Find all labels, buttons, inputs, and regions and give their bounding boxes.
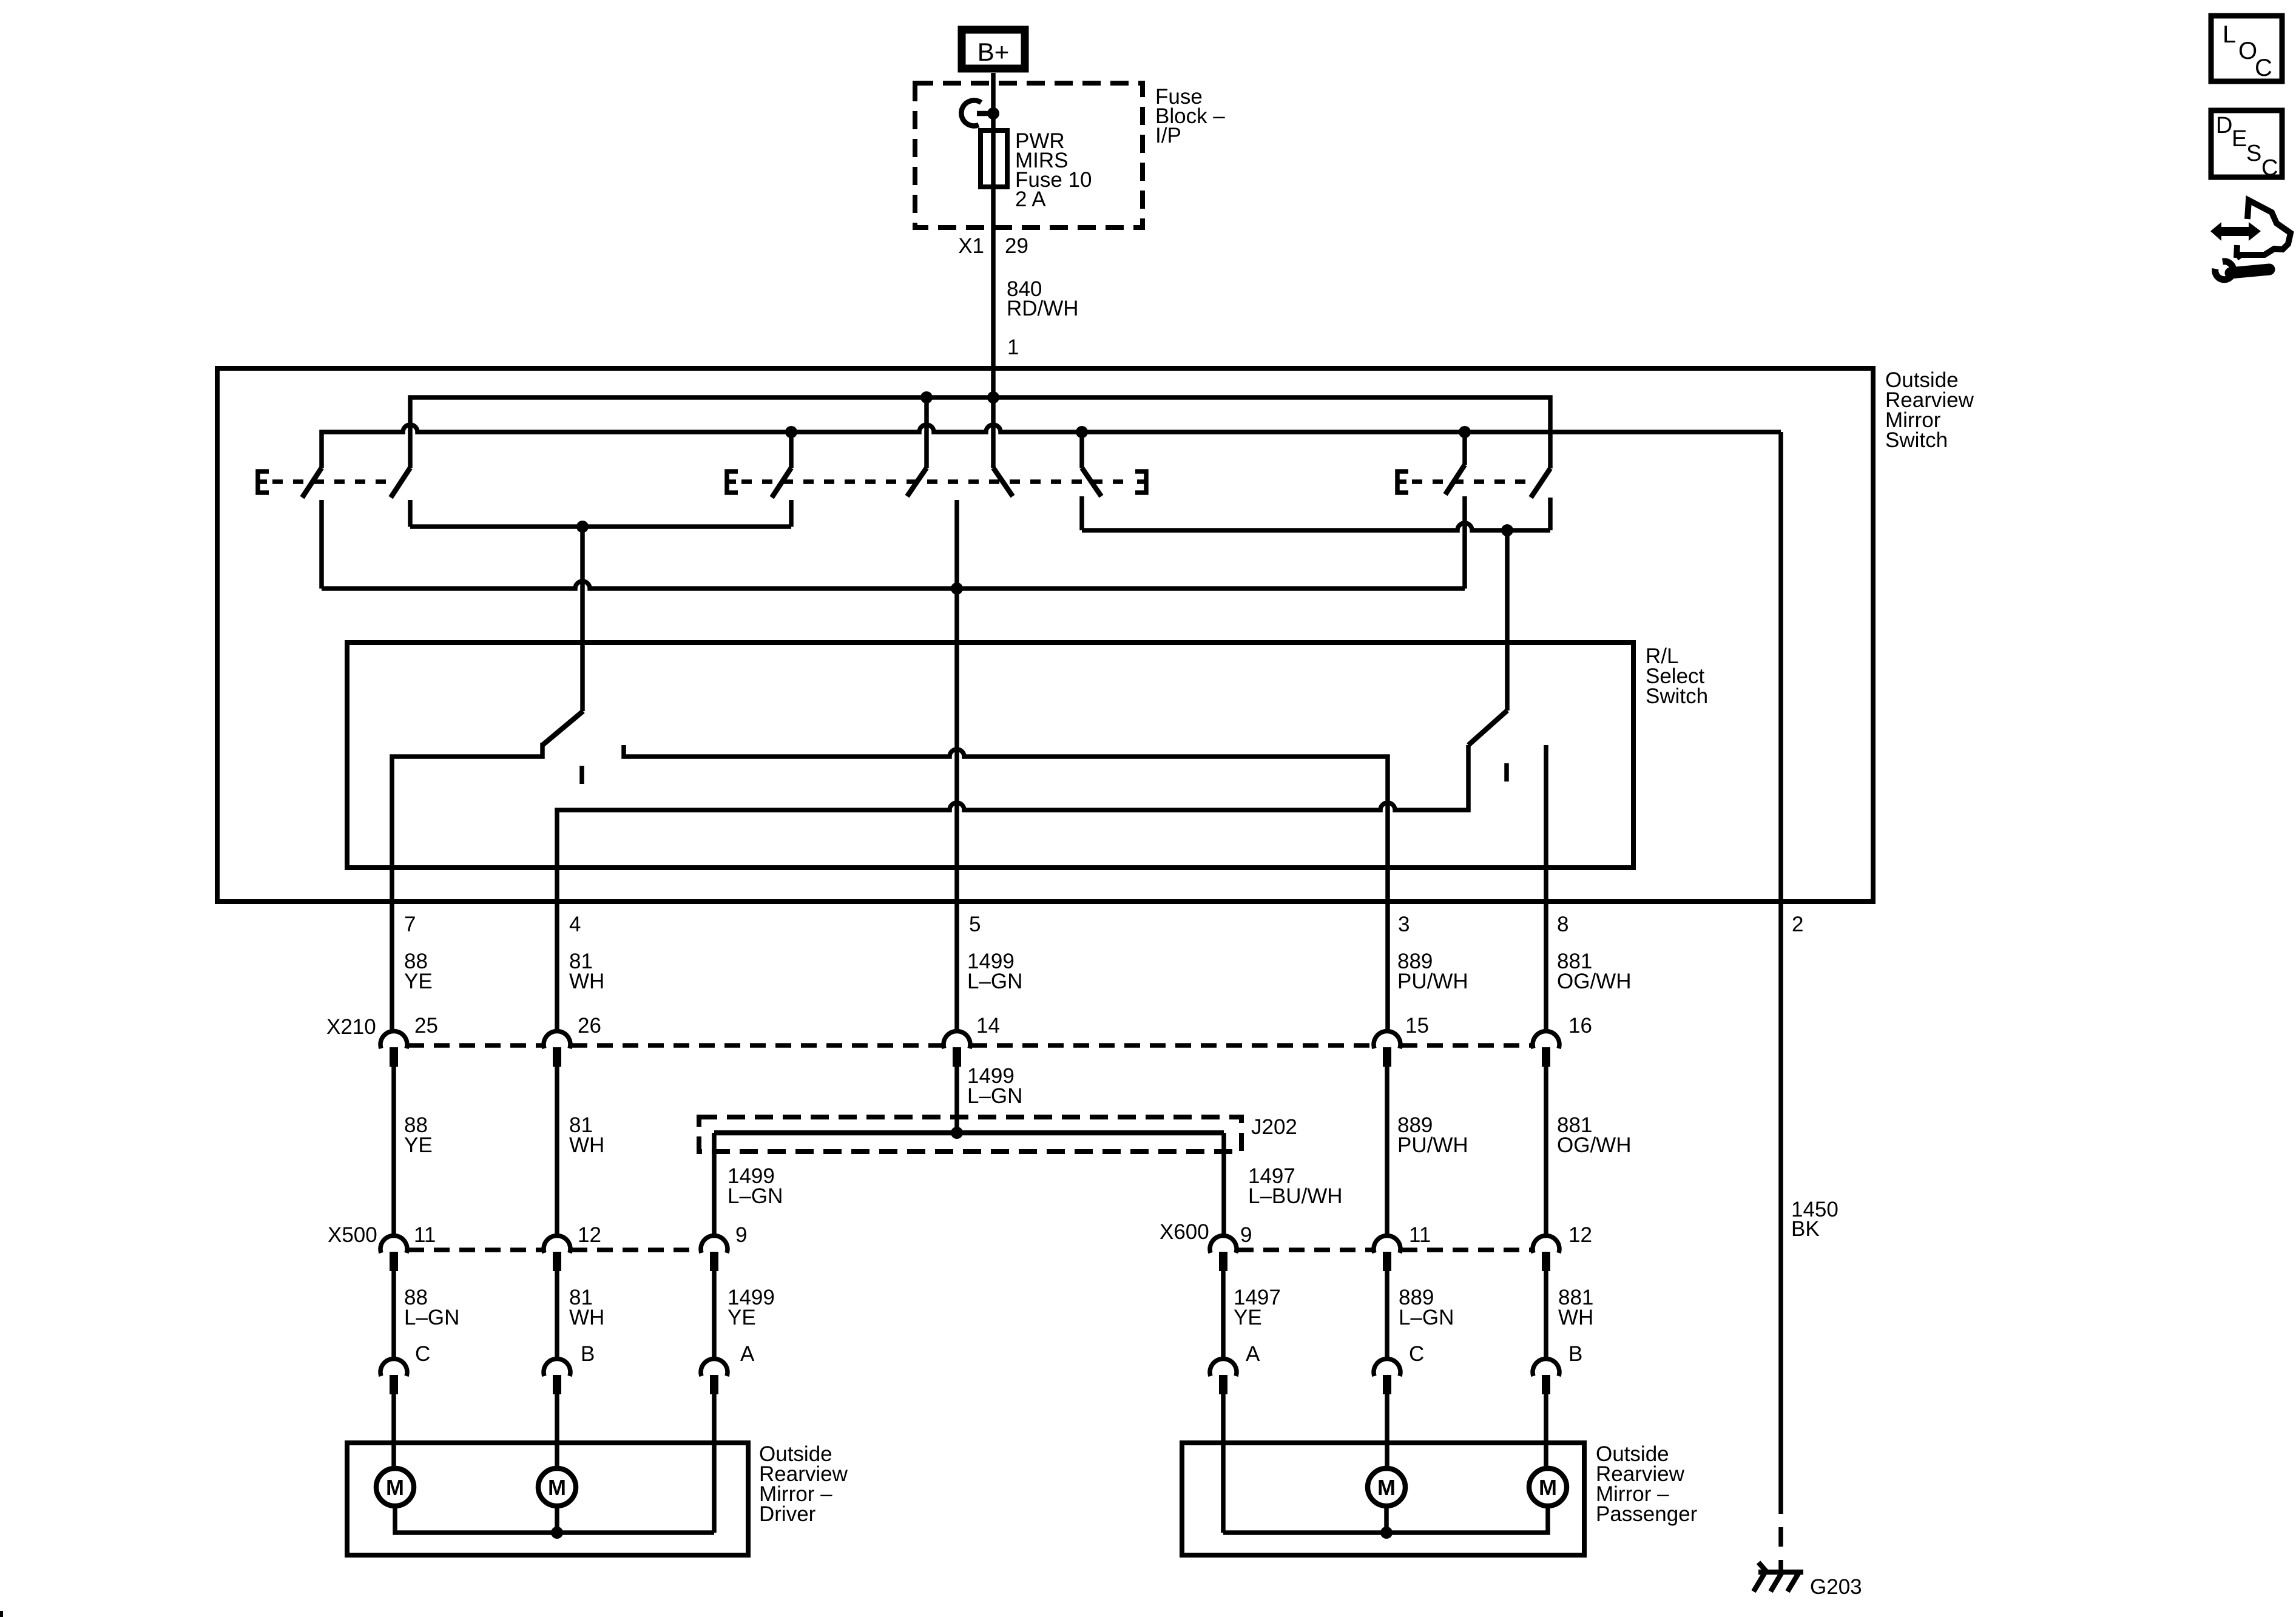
svg-text:OG/WH: OG/WH xyxy=(1557,970,1631,993)
X600 dashed line xyxy=(1238,1247,1531,1252)
X210 terminal 14 xyxy=(944,1031,970,1067)
outside rearview mirror passenger box xyxy=(1182,1443,1584,1555)
svg-text:X210: X210 xyxy=(326,1015,376,1039)
RL left pivot tick xyxy=(579,766,584,784)
svg-text:X600: X600 xyxy=(1160,1220,1209,1244)
wire pin 2 dashed section xyxy=(1778,1494,1783,1572)
wire X500-9 to mirror A xyxy=(712,1271,717,1360)
mirror terminal C passenger xyxy=(1374,1359,1400,1394)
svg-text:25: 25 xyxy=(414,1014,438,1038)
svg-text:12: 12 xyxy=(578,1223,601,1247)
X500 terminal 12 xyxy=(544,1235,570,1271)
splice junction dot xyxy=(951,1127,963,1139)
wire X600-12 to mirror B xyxy=(1544,1271,1548,1360)
wire 1499 L-GN label 2 xyxy=(967,1064,1022,1108)
RL left throw to pin 7 xyxy=(392,743,542,1032)
svg-text:L–GN: L–GN xyxy=(967,1084,1022,1108)
fuse block I/P dashed box xyxy=(915,83,1143,228)
svg-text:8: 8 xyxy=(1557,913,1568,936)
svg-text:B+: B+ xyxy=(977,38,1010,66)
switch blade S5 xyxy=(993,468,1013,496)
wire B into driver motor xyxy=(555,1394,559,1468)
junction dot bus2 S8 xyxy=(1459,426,1471,438)
svg-text:A: A xyxy=(1246,1342,1260,1366)
X500 terminal 11 xyxy=(380,1235,407,1271)
junction dot right pair xyxy=(1501,524,1513,536)
svg-text:9: 9 xyxy=(735,1223,747,1247)
X210 terminal 15 xyxy=(1374,1031,1400,1067)
wire X600-9 to mirror A xyxy=(1221,1271,1226,1360)
svg-text:L–GN: L–GN xyxy=(1399,1306,1454,1329)
svg-text:YE: YE xyxy=(404,1133,433,1157)
contact stub S6 xyxy=(1079,496,1084,530)
motor M passenger horizontal xyxy=(1529,1468,1567,1506)
gang dashes row B xyxy=(741,479,1131,484)
svg-text:G203: G203 xyxy=(1810,1575,1862,1599)
svg-text:L–GN: L–GN xyxy=(404,1306,459,1329)
switch blade S3 xyxy=(772,468,791,498)
wire 1497 L-BU/WH branch label xyxy=(1248,1164,1343,1208)
junction dot left pair xyxy=(576,521,589,533)
mirror terminal A driver xyxy=(701,1359,728,1394)
svg-text:4: 4 xyxy=(569,913,581,936)
svg-text:C: C xyxy=(415,1342,430,1366)
center contact wire to pin 5 xyxy=(954,500,959,1032)
switch blade S7 xyxy=(1531,468,1550,498)
wire left pair to RL switch xyxy=(580,527,585,711)
wire right pair to RL switch xyxy=(1505,530,1510,711)
svg-text:5: 5 xyxy=(969,913,981,936)
splice bar xyxy=(714,1130,1224,1136)
switch blade S2 xyxy=(391,468,410,498)
wire 881 OG/WH label xyxy=(1557,950,1631,993)
svg-text:X500: X500 xyxy=(328,1223,377,1247)
svg-text:Switch: Switch xyxy=(1646,684,1708,708)
wire 88 YE label 2 xyxy=(404,1113,433,1157)
svg-text:PU/WH: PU/WH xyxy=(1397,1133,1468,1157)
junction dot center contact xyxy=(951,582,963,595)
switch blade S1 xyxy=(302,468,322,498)
wire pin25 to X500 xyxy=(391,1067,396,1237)
wire bus1 to S4 xyxy=(924,397,929,468)
contact stub S7 xyxy=(1548,498,1553,530)
LOC icon box xyxy=(2211,16,2282,81)
wire splice right branch to X600 pin 9 xyxy=(1221,1133,1226,1237)
wire bus2 to S8 xyxy=(1462,432,1467,465)
splice J202 dashed box xyxy=(699,1117,1241,1152)
wire 881 OG/WH label 2 xyxy=(1557,1113,1631,1157)
svg-text:YE: YE xyxy=(728,1306,756,1329)
wire splice left branch to X500 pin 9 xyxy=(712,1133,717,1237)
svg-text:B: B xyxy=(581,1342,595,1366)
svg-text:B: B xyxy=(1568,1342,1582,1366)
svg-text:E: E xyxy=(2232,126,2247,152)
svg-text:2: 2 xyxy=(1792,913,1803,936)
svg-text:Switch: Switch xyxy=(1885,428,1948,452)
gang bracket E row A xyxy=(258,471,269,493)
contact stub S2 xyxy=(408,500,413,527)
svg-text:WH: WH xyxy=(569,970,604,993)
X600 terminal 11 xyxy=(1374,1235,1400,1271)
mirror terminal A passenger xyxy=(1210,1359,1237,1394)
svg-text:7: 7 xyxy=(404,913,416,936)
junction dot bus1 S4 xyxy=(920,391,933,403)
wire A into passenger common xyxy=(1221,1394,1226,1533)
motor M driver vertical xyxy=(376,1468,414,1506)
X600 terminal 9 xyxy=(1210,1235,1237,1271)
RL blade left xyxy=(542,711,583,745)
svg-text:L: L xyxy=(2223,21,2236,48)
gang bracket E row C xyxy=(1397,471,1408,493)
svg-text:9: 9 xyxy=(1240,1223,1252,1247)
RL right throw to pin 4 with hops xyxy=(557,745,1468,1032)
battery feed B+ xyxy=(962,30,1025,69)
switch blade S8 xyxy=(1445,465,1465,495)
svg-text:L–GN: L–GN xyxy=(728,1184,783,1208)
wire X500-11 to mirror C xyxy=(391,1271,396,1360)
svg-text:S: S xyxy=(2246,141,2261,166)
gang dashes row A xyxy=(272,479,394,484)
wire bus2 to S6 xyxy=(1079,432,1084,468)
link wire outer pair with hop xyxy=(322,581,1465,589)
wire 889 PU/WH label 2 xyxy=(1397,1113,1468,1157)
svg-text:I/P: I/P xyxy=(1155,124,1181,147)
svg-text:L–BU/WH: L–BU/WH xyxy=(1248,1184,1343,1208)
svg-text:PU/WH: PU/WH xyxy=(1397,970,1468,993)
driver common junction dot xyxy=(551,1527,563,1539)
passenger mirror label xyxy=(1596,1442,1698,1526)
wire 88 YE label xyxy=(404,950,433,993)
junction dot bus2 S6 xyxy=(1076,426,1088,438)
X500 terminal 9 xyxy=(701,1235,728,1271)
svg-text:YE: YE xyxy=(1234,1306,1262,1329)
wire pin16 to X600 xyxy=(1544,1067,1548,1237)
connector X1 pin 29 labels xyxy=(958,234,1028,258)
RL blade right xyxy=(1468,711,1507,745)
switch blade S4 xyxy=(907,468,927,496)
passenger common junction dot xyxy=(1380,1527,1393,1539)
svg-text:M: M xyxy=(1377,1475,1396,1500)
wire pin26 to X500 xyxy=(555,1067,559,1237)
svg-text:J202: J202 xyxy=(1251,1115,1297,1139)
wire bus1 to S5 xyxy=(991,397,996,468)
svg-text:WH: WH xyxy=(569,1133,604,1157)
wire 1499 YE label xyxy=(728,1286,775,1329)
svg-text:OG/WH: OG/WH xyxy=(1557,1133,1631,1157)
fuse value label xyxy=(1015,129,1092,211)
svg-text:11: 11 xyxy=(1409,1223,1431,1247)
page artifact dot bottom-left xyxy=(0,1611,3,1617)
driver mirror label xyxy=(759,1442,848,1526)
svg-text:3: 3 xyxy=(1398,913,1410,936)
wire pin15 to X600 xyxy=(1385,1067,1389,1237)
switch blade S6 xyxy=(1082,468,1101,496)
svg-text:L–GN: L–GN xyxy=(967,970,1022,993)
contact stub S1 xyxy=(319,500,324,589)
X210 terminal 26 xyxy=(544,1031,570,1067)
breaker tick xyxy=(977,111,993,116)
wire B+ to switch pin 1 xyxy=(991,73,996,397)
RL select switch box xyxy=(347,643,1633,868)
wire 1497 YE label xyxy=(1234,1286,1281,1329)
fuse PWR MIRS Fuse 10 2A xyxy=(981,130,1007,187)
wire pin 2 to ground solid xyxy=(1778,432,1783,1494)
svg-text:C: C xyxy=(2255,55,2272,81)
svg-text:WH: WH xyxy=(1558,1306,1593,1329)
DESC icon box xyxy=(2211,110,2282,181)
contact stub S3 xyxy=(789,500,794,527)
gang bracket E row B right xyxy=(1135,471,1146,493)
breaker hook symbol xyxy=(961,100,981,126)
svg-text:X1: X1 xyxy=(958,234,984,258)
wire 840 RD/WH label xyxy=(1007,277,1079,320)
bus wire upper xyxy=(410,397,1550,468)
svg-text:YE: YE xyxy=(404,970,433,993)
junction dot bus2 S3 xyxy=(785,426,797,438)
RL contact stub to pin 8 xyxy=(1544,745,1548,1032)
wire 81 WH label xyxy=(569,950,604,993)
svg-text:11: 11 xyxy=(414,1223,436,1247)
svg-text:2 A: 2 A xyxy=(1015,187,1046,211)
mirror terminal B passenger xyxy=(1533,1359,1559,1394)
passenger motor return wires xyxy=(1223,1506,1548,1533)
X210 dashed line xyxy=(408,1043,1531,1048)
svg-text:C: C xyxy=(1409,1342,1424,1366)
svg-text:M: M xyxy=(548,1475,566,1500)
svg-text:29: 29 xyxy=(1005,234,1028,258)
svg-text:1: 1 xyxy=(1007,336,1019,359)
svg-text:D: D xyxy=(2216,113,2232,138)
mirror terminal C driver xyxy=(380,1359,407,1394)
bus wire lower with hops xyxy=(322,425,1781,468)
wire A into driver common xyxy=(712,1394,717,1533)
wire 81 WH label 2 xyxy=(569,1113,604,1157)
svg-text:16: 16 xyxy=(1568,1014,1592,1038)
mirror terminal B driver xyxy=(544,1359,570,1394)
motor M passenger vertical xyxy=(1368,1468,1405,1506)
junction dot bus1 feed xyxy=(987,391,999,403)
ground G203 symbol xyxy=(1754,1562,1803,1592)
svg-text:A: A xyxy=(740,1342,755,1366)
motor M driver horizontal xyxy=(538,1468,576,1506)
link wire left pair xyxy=(410,524,791,529)
wire bus2 to S3 xyxy=(789,432,794,468)
svg-text:12: 12 xyxy=(1568,1223,1592,1247)
RL contact wire to pin 3 with hop xyxy=(624,745,1388,1032)
wire 881 WH label xyxy=(1558,1286,1593,1329)
gang bracket E row B left xyxy=(727,471,738,493)
svg-text:RD/WH: RD/WH xyxy=(1007,297,1079,320)
switch box label xyxy=(1885,368,1974,452)
wire pin14 to J202 xyxy=(954,1067,959,1133)
X210 terminal 16 xyxy=(1533,1031,1559,1067)
RL right pivot tick xyxy=(1504,763,1509,781)
wire 1499 L-GN branch label xyxy=(728,1164,783,1208)
svg-text:14: 14 xyxy=(976,1014,1000,1038)
wire 1499 L-GN label xyxy=(967,950,1022,993)
fuse block label xyxy=(1155,85,1225,147)
X500 dashed line xyxy=(408,1247,700,1252)
contact stub S8 xyxy=(1462,496,1467,589)
mirror adjust icon arrow xyxy=(2210,222,2261,241)
svg-text:15: 15 xyxy=(1405,1014,1429,1038)
svg-text:Passenger: Passenger xyxy=(1596,1502,1698,1526)
link wire right pair with hop xyxy=(1082,523,1550,530)
wire 81 WH label 3 xyxy=(569,1286,604,1329)
wire X500-12 to mirror B xyxy=(555,1271,559,1360)
wire B into passenger motor xyxy=(1544,1394,1548,1468)
wire 1450 BK label xyxy=(1791,1198,1838,1241)
svg-text:M: M xyxy=(1539,1475,1557,1500)
svg-text:26: 26 xyxy=(578,1014,601,1038)
wire 88 L-GN label xyxy=(404,1286,459,1329)
RL select switch label xyxy=(1646,644,1708,708)
svg-text:Driver: Driver xyxy=(759,1502,816,1526)
junction dot at breaker xyxy=(987,107,999,120)
svg-text:WH: WH xyxy=(569,1306,604,1329)
wire 889 L-GN label xyxy=(1399,1286,1454,1329)
wire X600-11 to mirror C xyxy=(1385,1271,1389,1360)
X210 terminal 25 xyxy=(380,1031,407,1067)
wire C into passenger motor xyxy=(1385,1394,1389,1468)
X600 terminal 12 xyxy=(1533,1235,1559,1271)
outside rearview mirror switch box xyxy=(217,368,1873,902)
wire 889 PU/WH label xyxy=(1397,950,1468,993)
driver motor return wires xyxy=(395,1506,714,1533)
mirror adjust icon wrench xyxy=(2215,262,2269,280)
svg-text:M: M xyxy=(386,1475,404,1500)
wire C into driver motor xyxy=(391,1394,396,1468)
svg-text:BK: BK xyxy=(1791,1217,1820,1241)
outside rearview mirror driver box xyxy=(347,1443,748,1555)
gang dashes row C xyxy=(1412,479,1533,484)
mirror adjust icon outline xyxy=(2237,200,2291,258)
svg-text:C: C xyxy=(2261,155,2278,181)
